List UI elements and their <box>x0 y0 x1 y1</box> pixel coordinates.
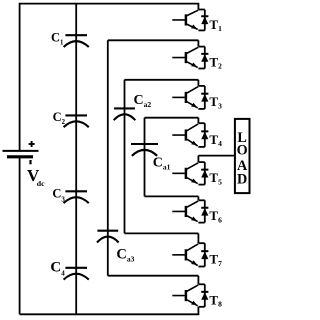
svg-text:C2: C2 <box>53 110 66 126</box>
wire: node n3 tap (T3-T4 junction to Ca1 top) <box>145 117 199 119</box>
transistor T4 (IGBT) <box>172 124 198 146</box>
capacitor C4 <box>64 268 89 280</box>
svg-text:T8: T8 <box>209 292 222 308</box>
wire: Ca3 branch vertical <box>107 40 109 275</box>
wire: bottom bus <box>20 313 200 315</box>
transistor T5 (IGBT) <box>172 163 198 184</box>
svg-text:Ca2: Ca2 <box>134 93 152 109</box>
diode of T1 (antiparallel) <box>201 10 208 31</box>
diode of T5 (antiparallel) <box>201 162 208 185</box>
wire: Ca2 branch vertical <box>124 80 126 234</box>
wire: node n1 tap (T1-T2 junction to Ca3 top) <box>108 39 199 41</box>
svg-text:O: O <box>237 143 248 159</box>
svg-text:Ca1: Ca1 <box>153 156 171 172</box>
wire: top bus from capacitor string to switch chain top <box>76 3 200 5</box>
svg-text:T4: T4 <box>209 132 222 148</box>
wire: node n7 tap (Ca3 bottom to T7-T8 junction) <box>108 275 199 277</box>
transistor T7 (IGBT) <box>172 244 198 266</box>
wire: collector node of T8 to diode branch <box>198 283 204 285</box>
capacitor Ca3 <box>97 231 119 243</box>
wire: emitter node of T1 to diode branch <box>198 29 204 31</box>
wire: chain segment above T2 <box>197 40 199 46</box>
wire: node n6 tap (Ca2 bottom to T6-T7 junction) <box>125 232 199 234</box>
capacitor C3 <box>64 191 89 203</box>
wire: emitter node of T2 to diode branch <box>198 68 204 70</box>
diode of T4 (antiparallel) <box>201 123 208 147</box>
capacitor C1 <box>64 35 89 47</box>
wire: node n5 tap (Ca1 bottom to T5-T6 junction) <box>145 195 199 197</box>
wire: chain segment above T5 <box>197 156 199 163</box>
capacitor Ca2 <box>114 108 136 120</box>
transistor T3 (IGBT) <box>172 87 198 108</box>
wire: chain segment above T4 <box>197 118 199 124</box>
transistor T2 (IGBT) <box>172 47 198 67</box>
svg-text:C4: C4 <box>50 259 65 277</box>
wire: emitter node of T7 to diode branch <box>198 266 204 268</box>
svg-text:T2: T2 <box>209 54 222 70</box>
svg-text:T3: T3 <box>209 94 222 110</box>
svg-text:Vdc: Vdc <box>27 166 45 188</box>
wire: collector node of T6 to diode branch <box>198 199 204 201</box>
wire: Ca1 branch vertical <box>144 118 146 197</box>
diode of T2 (antiparallel) <box>201 47 208 69</box>
diode of T8 (antiparallel) <box>201 284 208 307</box>
diode of T6 (antiparallel) <box>201 200 208 222</box>
wire: chain segment above T3 <box>197 80 199 86</box>
wire: chain segment above T6 <box>197 196 199 200</box>
wire: collector node of T1 to diode branch <box>198 9 204 11</box>
wire: node n2 tap (T2-T3 junction to Ca2 top) <box>125 79 199 81</box>
battery V_dc <box>3 141 39 164</box>
svg-text:C1: C1 <box>51 30 64 46</box>
wire: left bus from battery - terminal to bottom-left corner <box>19 157 21 314</box>
diode of T3 (antiparallel) <box>201 86 208 109</box>
svg-text:T1: T1 <box>209 17 222 33</box>
wire: DC-link capacitor string vertical <box>75 4 77 315</box>
wire: emitter node of T3 to diode branch <box>198 108 204 110</box>
wire: collector node of T2 to diode branch <box>198 46 204 48</box>
wire: emitter node of T5 to diode branch <box>198 184 204 186</box>
wire: collector node of T5 to diode branch <box>198 161 204 163</box>
capacitor Ca1 <box>131 144 158 156</box>
wire: collector node of T3 to diode branch <box>198 85 204 87</box>
transistor T8 (IGBT) <box>172 285 198 306</box>
wire: emitter node of T6 to diode branch <box>198 222 204 224</box>
diode of T7 (antiparallel) <box>201 243 208 266</box>
wire: chain segment above T1 <box>197 4 199 10</box>
transistor T1 (IGBT) <box>172 10 198 29</box>
wire: emitter node of T8 to diode branch <box>198 306 204 308</box>
wire: emitter node of T4 to diode branch <box>198 146 204 148</box>
svg-text:Ca3: Ca3 <box>116 247 134 264</box>
svg-text:T6: T6 <box>209 208 222 224</box>
wire: chain segment below T8 <box>197 307 199 315</box>
load box <box>235 119 250 193</box>
svg-text:C3: C3 <box>52 187 65 204</box>
transistor T6 (IGBT) <box>172 201 198 222</box>
wire: left bus from top-left corner down to battery + terminal <box>20 4 77 151</box>
svg-text:T5: T5 <box>209 170 222 186</box>
wire: output node n4 to load <box>198 155 235 157</box>
capacitor C2 <box>64 115 89 127</box>
wire: chain segment above T7 <box>197 233 199 243</box>
wire: collector node of T7 to diode branch <box>198 242 204 244</box>
wire: chain segment above T8 <box>197 276 199 285</box>
svg-text:T7: T7 <box>209 252 222 268</box>
svg-text:D: D <box>237 172 247 188</box>
wire: collector node of T4 to diode branch <box>198 122 204 124</box>
